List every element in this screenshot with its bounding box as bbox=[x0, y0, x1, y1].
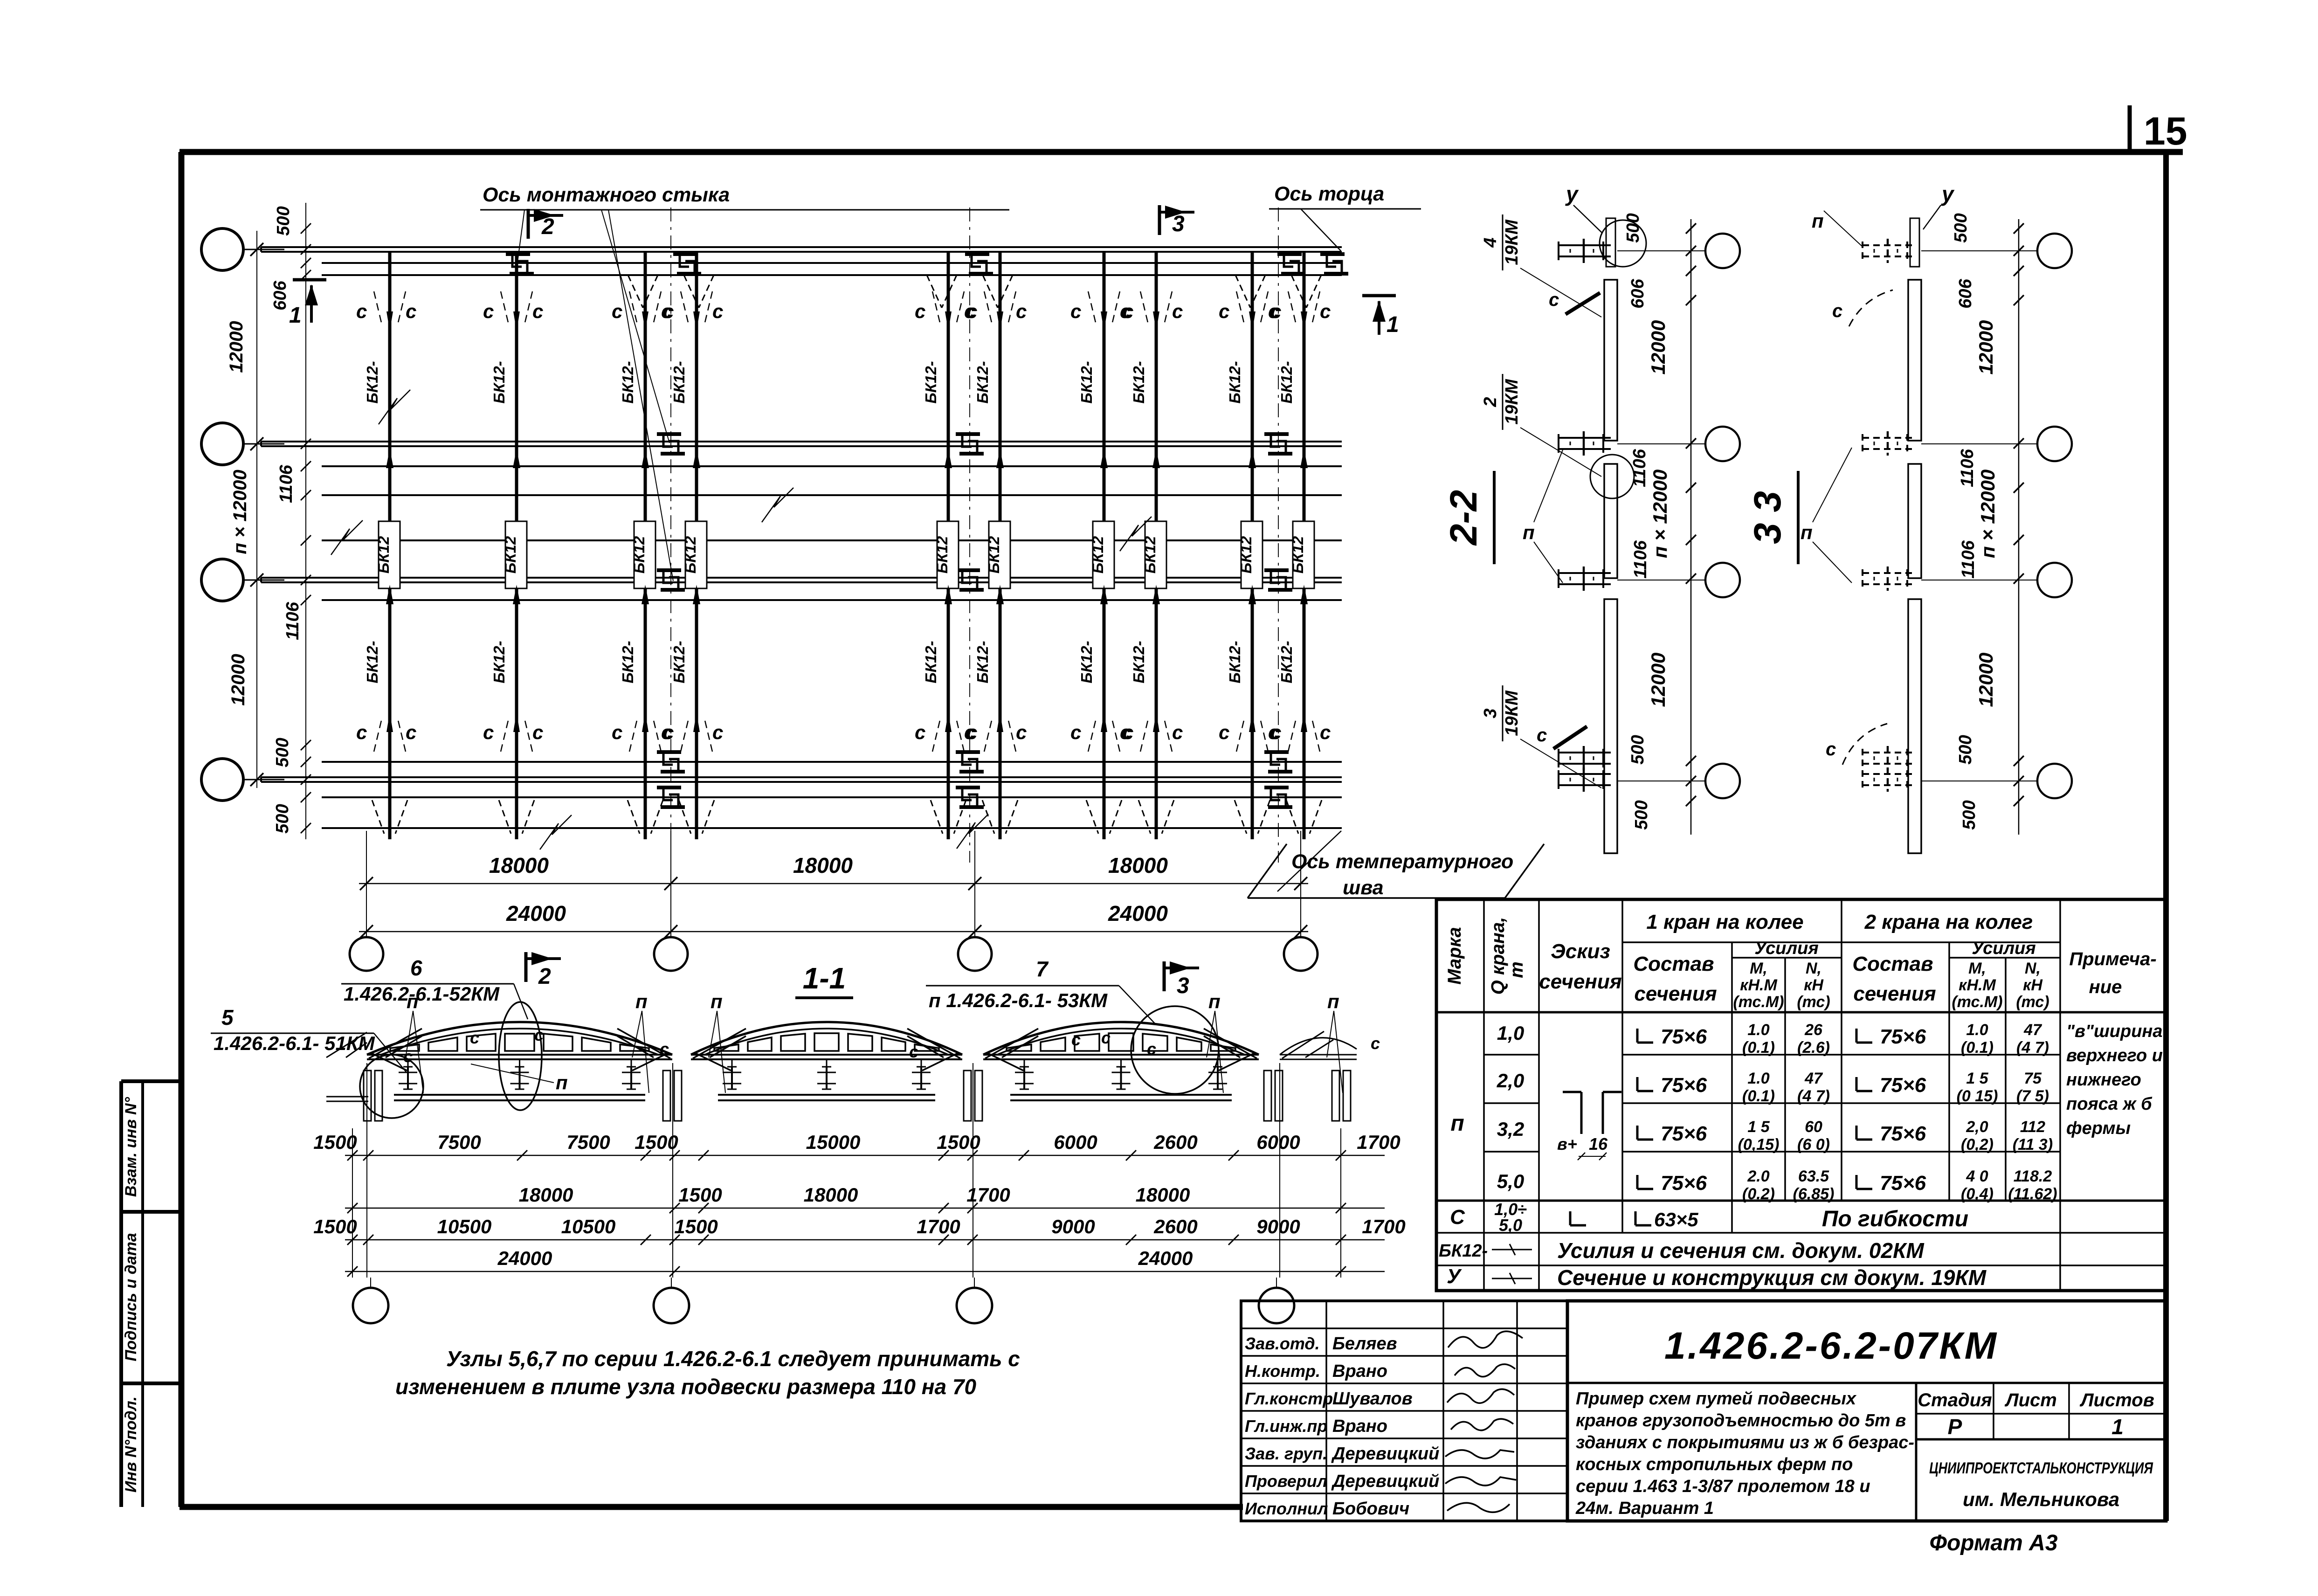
svg-text:Проверил: Проверил bbox=[1245, 1472, 1327, 1491]
svg-text:2: 2 bbox=[538, 964, 551, 989]
detail circles 2-2 bbox=[1600, 220, 1646, 267]
svg-text:БК12: БК12 bbox=[502, 536, 519, 573]
page number 15 bbox=[2128, 105, 2132, 155]
svg-text:1.0: 1.0 bbox=[1966, 1021, 1988, 1039]
plan grid circles bbox=[201, 228, 243, 270]
svg-text:75×6: 75×6 bbox=[1661, 1074, 1707, 1097]
svg-text:9000: 9000 bbox=[1051, 1216, 1095, 1237]
svg-text:500: 500 bbox=[274, 206, 293, 235]
svg-text:(6,85): (6,85) bbox=[1793, 1185, 1835, 1203]
svg-text:Усилия и сечения см. док: Усилия и сечения см. докум. 02КМ bbox=[1557, 1238, 1925, 1263]
column at 2877 bbox=[1332, 1071, 1339, 1121]
svg-text:12000: 12000 bbox=[1647, 653, 1669, 707]
svg-text:п: п bbox=[1812, 210, 1824, 232]
svg-text:Исполнил: Исполнил bbox=[1245, 1499, 1328, 1518]
c marks 3-3 (dashed) bbox=[1849, 290, 1893, 326]
section 2-2 hangers bbox=[1559, 244, 1611, 246]
svg-text:18000: 18000 bbox=[793, 853, 853, 877]
svg-text:п 1.426.2-6.1- 53КМ: п 1.426.2-6.1- 53КМ bbox=[929, 989, 1108, 1011]
title block main box bbox=[1567, 1301, 2166, 1521]
description box bbox=[1915, 1383, 1918, 1521]
svg-text:п × 12000: п × 12000 bbox=[1649, 470, 1671, 558]
svg-text:15: 15 bbox=[2144, 109, 2187, 153]
svg-text:БК12-: БК12- bbox=[1439, 1241, 1488, 1261]
svg-text:Стадия: Стадия bbox=[1918, 1390, 1992, 1410]
svg-text:10500: 10500 bbox=[437, 1216, 492, 1237]
svg-text:2,0: 2,0 bbox=[1966, 1118, 1988, 1136]
svg-text:1106: 1106 bbox=[1958, 449, 1977, 487]
svg-text:с: с bbox=[712, 300, 723, 322]
svg-text:с: с bbox=[1016, 721, 1027, 743]
svg-text:606: 606 bbox=[270, 280, 290, 310]
svg-text:БК12-: БК12- bbox=[490, 641, 508, 683]
svg-text:2 крана на колег: 2 крана на колег bbox=[1864, 911, 2033, 933]
svg-text:БК12: БК12 bbox=[1089, 536, 1106, 573]
detail circle node 6 bbox=[499, 1002, 542, 1110]
svg-text:Врано: Врано bbox=[1332, 1361, 1387, 1381]
rail joints row A bbox=[506, 252, 530, 256]
svg-text:с: с bbox=[534, 1025, 544, 1044]
svg-text:с: с bbox=[1071, 1030, 1081, 1049]
svg-text:19КМ: 19КМ bbox=[1502, 219, 1522, 265]
svg-text:(0 15): (0 15) bbox=[1957, 1087, 1998, 1105]
svg-text:(0.1): (0.1) bbox=[1742, 1087, 1775, 1105]
svg-text:1106: 1106 bbox=[1631, 540, 1650, 579]
column at 2087 bbox=[964, 1071, 971, 1121]
svg-text:ЦНИИПРОЕКТСТАЛЬКОНСТРУКЦИЯ: ЦНИИПРОЕКТСТАЛЬКОНСТРУКЦИЯ bbox=[1929, 1459, 2153, 1477]
svg-text:1: 1 bbox=[289, 303, 302, 328]
svg-text:3 3: 3 3 bbox=[1746, 491, 1789, 544]
svg-text:М,: М, bbox=[1750, 960, 1767, 977]
svg-text:(тс): (тс) bbox=[2016, 993, 2049, 1011]
svg-text:с: с bbox=[406, 721, 416, 743]
left dim line 500/606 column bbox=[305, 203, 306, 839]
svg-text:п × 12000: п × 12000 bbox=[230, 470, 250, 554]
svg-text:с: с bbox=[1270, 721, 1281, 743]
svg-text:2: 2 bbox=[1481, 397, 1500, 407]
svg-text:с: с bbox=[1371, 1034, 1380, 1053]
svg-text:с: с bbox=[1172, 300, 1183, 322]
svg-text:75×6: 75×6 bbox=[1880, 1025, 1926, 1048]
svg-text:(11.62): (11.62) bbox=[2008, 1185, 2057, 1203]
svg-text:У: У bbox=[1447, 1265, 1462, 1288]
svg-text:(тс.М): (тс.М) bbox=[1733, 993, 1784, 1011]
svg-text:7500: 7500 bbox=[437, 1131, 481, 1153]
svg-text:с: с bbox=[1270, 300, 1281, 322]
section flag 3 top bbox=[1158, 205, 1161, 235]
svg-text:с: с bbox=[966, 300, 977, 322]
section flag 2 bottom bbox=[524, 952, 528, 982]
svg-text:Ось монтажного стыка: Ось монтажного стыка bbox=[483, 184, 730, 206]
svg-text:с: с bbox=[1101, 1028, 1111, 1047]
svg-text:(0,4): (0,4) bbox=[1961, 1185, 1994, 1203]
svg-text:3: 3 bbox=[1172, 212, 1185, 236]
svg-text:63.5: 63.5 bbox=[1798, 1168, 1829, 1185]
svg-text:с: с bbox=[532, 300, 543, 322]
svg-text:БК12-: БК12- bbox=[670, 641, 688, 683]
svg-text:6000: 6000 bbox=[1256, 1131, 1300, 1153]
svg-text:(7 5): (7 5) bbox=[2016, 1087, 2049, 1105]
section 2-2 dim line bbox=[1690, 219, 1692, 835]
svg-text:75×6: 75×6 bbox=[1880, 1172, 1926, 1195]
svg-text:2.0: 2.0 bbox=[1747, 1168, 1769, 1185]
svg-text:1.0: 1.0 bbox=[1747, 1070, 1769, 1087]
svg-text:БК12: БК12 bbox=[1289, 536, 1306, 573]
svg-text:Р: Р bbox=[1948, 1415, 1962, 1439]
svg-text:с: с bbox=[1172, 721, 1183, 743]
dim line 18000 row bbox=[345, 1208, 1385, 1209]
column at 2731 bbox=[1264, 1071, 1271, 1121]
svg-text:ние: ние bbox=[2089, 977, 2122, 997]
section 3 3 grid circles bbox=[2037, 234, 2072, 268]
svg-text:12000: 12000 bbox=[1975, 320, 1997, 375]
svg-text:с: с bbox=[1070, 300, 1081, 322]
svg-text:1.426.2-6.1-52КМ: 1.426.2-6.1-52КМ bbox=[344, 983, 500, 1005]
channel sketch bbox=[1563, 1091, 1581, 1093]
svg-text:с: с bbox=[1537, 725, 1547, 746]
svg-text:с: с bbox=[1549, 290, 1559, 310]
svg-text:500: 500 bbox=[273, 738, 292, 767]
svg-text:606: 606 bbox=[1628, 278, 1648, 308]
svg-text:Зав.отд.: Зав.отд. bbox=[1245, 1334, 1320, 1353]
svg-text:24000: 24000 bbox=[1108, 901, 1168, 926]
svg-text:с: с bbox=[1219, 300, 1229, 322]
plan bottom extension lines bbox=[366, 831, 367, 938]
section flag 1 right bbox=[1362, 294, 1396, 297]
truss 787-1442 bbox=[367, 1054, 672, 1056]
svg-text:им. Мельникова: им. Мельникова bbox=[1963, 1488, 2119, 1510]
rail joints row C bbox=[657, 568, 681, 572]
svg-text:16: 16 bbox=[1589, 1134, 1608, 1154]
table verticals bbox=[1483, 899, 1485, 1291]
svg-text:3: 3 bbox=[1177, 974, 1189, 998]
svg-text:БК12-: БК12- bbox=[364, 641, 381, 683]
svg-text:с: с bbox=[356, 721, 367, 743]
svg-text:БК12: БК12 bbox=[1237, 536, 1255, 573]
svg-text:с: с bbox=[712, 721, 723, 743]
svg-text:24м. Вариант 1: 24м. Вариант 1 bbox=[1575, 1499, 1714, 1518]
detail circle node 7 bbox=[1131, 1006, 1219, 1094]
svg-text:(тс.М): (тс.М) bbox=[1952, 993, 2002, 1011]
svg-text:500: 500 bbox=[1959, 800, 1979, 829]
svg-text:БК12-: БК12- bbox=[974, 361, 991, 403]
section 1-1 dim verticals bbox=[366, 1063, 367, 1278]
svg-text:500: 500 bbox=[273, 804, 292, 833]
svg-text:12000: 12000 bbox=[226, 321, 247, 373]
section 3 3 dim line bbox=[2018, 219, 2020, 835]
section flag 1 left bbox=[293, 278, 326, 282]
left truss fragment bbox=[326, 1032, 367, 1057]
svg-text:(0.1): (0.1) bbox=[1961, 1039, 1994, 1057]
svg-text:7: 7 bbox=[1036, 957, 1049, 981]
svg-text:с: с bbox=[532, 721, 543, 743]
section 1-1 bottom circles bbox=[370, 1278, 371, 1289]
svg-text:1-1: 1-1 bbox=[803, 961, 846, 995]
svg-text:2: 2 bbox=[541, 214, 554, 239]
svg-text:Усилия: Усилия bbox=[1754, 939, 1818, 958]
svg-text:Зав. груп.: Зав. груп. bbox=[1245, 1444, 1327, 1463]
left margin stamp boxes bbox=[119, 1081, 123, 1507]
svg-text:изменением в плите узла п: изменением в плите узла подвески размера… bbox=[395, 1375, 977, 1399]
svg-text:БК12-: БК12- bbox=[1226, 361, 1243, 403]
svg-text:"в"ширина: "в"ширина bbox=[2066, 1022, 2163, 1041]
svg-text:19КМ: 19КМ bbox=[1502, 379, 1522, 425]
svg-text:1700: 1700 bbox=[1357, 1131, 1400, 1153]
svg-text:Узлы 5,6,7 по серии 1.426.: Узлы 5,6,7 по серии 1.426.2-6.1 следует … bbox=[446, 1347, 1020, 1371]
column at 800 bbox=[364, 1071, 371, 1121]
svg-text:БК12-: БК12- bbox=[619, 361, 636, 403]
svg-text:Листов: Листов bbox=[2079, 1390, 2154, 1410]
svg-text:(2.6): (2.6) bbox=[1797, 1039, 1830, 1057]
svg-text:26: 26 bbox=[1804, 1021, 1823, 1039]
svg-text:п: п bbox=[407, 990, 419, 1012]
section flag 3 bottom bbox=[1163, 961, 1166, 991]
svg-text:БК12: БК12 bbox=[985, 536, 1002, 573]
svg-text:Формат А3: Формат А3 bbox=[1929, 1531, 2057, 1555]
svg-text:сечения: сечения bbox=[1539, 970, 1621, 993]
signature table bbox=[1241, 1301, 1567, 1521]
dim line 24000 bbox=[359, 931, 1308, 933]
svg-text:24000: 24000 bbox=[1138, 1247, 1193, 1269]
dim line 18000 bbox=[359, 883, 1308, 884]
svg-text:БК12-: БК12- bbox=[1130, 361, 1147, 403]
svg-text:с: с bbox=[483, 721, 494, 743]
svg-text:с: с bbox=[660, 1039, 669, 1058]
rail joints row B bbox=[657, 432, 681, 436]
svg-text:3: 3 bbox=[1481, 708, 1500, 718]
svg-text:БК12: БК12 bbox=[375, 536, 392, 573]
svg-text:с: с bbox=[915, 721, 925, 743]
temperature seam axis leader bbox=[1277, 831, 1341, 891]
svg-text:М,: М, bbox=[1968, 960, 1986, 977]
svg-text:БК12-: БК12- bbox=[619, 641, 636, 683]
svg-text:(4 7): (4 7) bbox=[1797, 1087, 1830, 1105]
svg-text:фермы: фермы bbox=[2066, 1119, 2131, 1138]
crane table outer border bbox=[1436, 899, 2166, 1291]
detail circle node 5 bbox=[360, 1055, 423, 1118]
svg-text:112: 112 bbox=[2020, 1118, 2045, 1136]
svg-text:1 5: 1 5 bbox=[1966, 1070, 1988, 1087]
svg-text:с: с bbox=[1826, 739, 1836, 760]
svg-text:1500: 1500 bbox=[937, 1131, 980, 1153]
svg-text:Гл.инж.пр: Гл.инж.пр bbox=[1245, 1416, 1327, 1436]
svg-text:1 5: 1 5 bbox=[1747, 1118, 1770, 1136]
svg-text:БК12-: БК12- bbox=[670, 361, 688, 403]
small arrows at rows B and C bbox=[386, 449, 393, 468]
svg-text:Усилия: Усилия bbox=[1972, 939, 2035, 958]
plan rail lines bbox=[322, 262, 1342, 264]
svg-text:Н.контр.: Н.контр. bbox=[1245, 1361, 1320, 1381]
section flag 2 top bbox=[527, 209, 530, 239]
svg-text:500: 500 bbox=[1951, 213, 1971, 242]
svg-text:75×6: 75×6 bbox=[1661, 1172, 1707, 1195]
svg-text:п: п bbox=[1523, 521, 1535, 543]
dashed V hangers below row A joints bbox=[628, 275, 643, 308]
svg-text:верхнего и: верхнего и bbox=[2066, 1046, 2163, 1065]
svg-text:75×6: 75×6 bbox=[1880, 1074, 1926, 1097]
svg-text:БК12-: БК12- bbox=[922, 361, 939, 403]
svg-text:с: с bbox=[915, 300, 925, 322]
svg-text:19КМ: 19КМ bbox=[1502, 690, 1522, 736]
svg-text:Деревицкий: Деревицкий bbox=[1331, 1472, 1439, 1491]
section 3 3 beam bbox=[1908, 280, 1921, 441]
svg-text:1: 1 bbox=[1387, 312, 1399, 337]
svg-text:с: с bbox=[406, 300, 416, 322]
svg-text:п: п bbox=[1208, 990, 1221, 1012]
svg-text:(0,2): (0,2) bbox=[1961, 1136, 1994, 1154]
svg-text:1106: 1106 bbox=[283, 601, 303, 640]
svg-text:N,: N, bbox=[1806, 960, 1821, 977]
section 2-2 beam bbox=[1604, 280, 1617, 441]
dim line 10500 row bbox=[345, 1239, 1385, 1241]
svg-text:БК12: БК12 bbox=[630, 536, 648, 573]
svg-text:с: с bbox=[1147, 1039, 1156, 1058]
table horizontals bbox=[1622, 941, 2060, 943]
svg-text:БК12-: БК12- bbox=[490, 361, 508, 403]
svg-text:с: с bbox=[663, 721, 674, 743]
svg-text:(4 7): (4 7) bbox=[2016, 1039, 2049, 1057]
section 3 3 hangers bbox=[1863, 244, 1915, 246]
svg-text:шва: шва bbox=[1343, 877, 1384, 899]
svg-text:с: с bbox=[1016, 300, 1027, 322]
svg-text:п: п bbox=[1450, 1111, 1464, 1136]
svg-text:2,0: 2,0 bbox=[1497, 1070, 1524, 1092]
svg-text:5,0: 5,0 bbox=[1499, 1216, 1522, 1235]
svg-text:зданиях с покрытиями из ж б: зданиях с покрытиями из ж б безрас- bbox=[1576, 1433, 1914, 1452]
svg-text:кН.М: кН.М bbox=[1740, 976, 1777, 994]
svg-text:БК12: БК12 bbox=[682, 536, 699, 573]
svg-text:1700: 1700 bbox=[1362, 1216, 1405, 1237]
svg-text:1700: 1700 bbox=[917, 1216, 960, 1237]
break marks bbox=[379, 390, 410, 424]
svg-text:Инв N°подл.: Инв N°подл. bbox=[122, 1396, 140, 1492]
svg-text:(тс): (тс) bbox=[1797, 993, 1830, 1011]
svg-text:БК12-: БК12- bbox=[1130, 641, 1147, 683]
svg-text:с: с bbox=[1320, 721, 1331, 743]
svg-text:БК12-: БК12- bbox=[1226, 641, 1243, 683]
svg-text:у: у bbox=[1565, 182, 1579, 206]
c marks 2-2 bbox=[1566, 293, 1600, 314]
svg-text:Марка: Марка bbox=[1444, 927, 1465, 985]
svg-text:1.0: 1.0 bbox=[1747, 1021, 1769, 1039]
svg-text:БК12: БК12 bbox=[933, 536, 951, 573]
svg-text:кранов грузоподъемностью до: кранов грузоподъемностью до 5т в bbox=[1576, 1411, 1906, 1430]
svg-text:кН.М: кН.М bbox=[1959, 976, 1996, 994]
svg-text:1500: 1500 bbox=[635, 1131, 678, 1153]
svg-text:118.2: 118.2 bbox=[2014, 1168, 2052, 1185]
svg-text:Q крана,: Q крана, bbox=[1488, 917, 1508, 995]
svg-text:1106: 1106 bbox=[1959, 540, 1978, 579]
svg-text:с: с bbox=[483, 300, 494, 322]
svg-text:3,2: 3,2 bbox=[1497, 1118, 1524, 1140]
svg-text:с: с bbox=[1123, 721, 1133, 743]
svg-text:12000: 12000 bbox=[228, 654, 248, 705]
svg-text:кН: кН bbox=[1804, 976, 1824, 994]
svg-text:косных стропильных ферм по: косных стропильных ферм по bbox=[1576, 1455, 1853, 1474]
svg-text:БК12: БК12 bbox=[1141, 536, 1159, 573]
svg-text:Гл.констр.: Гл.констр. bbox=[1245, 1389, 1338, 1408]
svg-text:Примеча-: Примеча- bbox=[2069, 949, 2156, 969]
truss 1482-2064 bbox=[691, 1054, 962, 1056]
plan row axis lines (double) bbox=[243, 249, 284, 250]
svg-text:2600: 2600 bbox=[1153, 1216, 1197, 1237]
svg-text:(6 0): (6 0) bbox=[1797, 1136, 1830, 1154]
svg-text:Врано: Врано bbox=[1332, 1416, 1387, 1436]
svg-text:БК12-: БК12- bbox=[1278, 641, 1295, 683]
svg-text:Лист: Лист bbox=[2004, 1390, 2057, 1410]
svg-text:5,0: 5,0 bbox=[1497, 1170, 1524, 1192]
svg-text:По гибкости: По гибкости bbox=[1822, 1207, 1968, 1231]
svg-text:1 кран на колее: 1 кран на колее bbox=[1646, 911, 1803, 933]
svg-text:с: с bbox=[1320, 300, 1331, 322]
svg-text:606: 606 bbox=[1956, 278, 1975, 308]
svg-text:с: с bbox=[356, 300, 367, 322]
svg-text:Шувалов: Шувалов bbox=[1332, 1389, 1413, 1409]
right truss fragment bbox=[1280, 1038, 1357, 1055]
svg-text:п × 12000: п × 12000 bbox=[1977, 470, 1999, 558]
svg-text:БК12-: БК12- bbox=[1078, 641, 1095, 683]
svg-text:1500: 1500 bbox=[313, 1131, 357, 1153]
svg-text:18000: 18000 bbox=[804, 1184, 858, 1206]
bottom grid circles bbox=[366, 932, 367, 937]
svg-text:(0.2): (0.2) bbox=[1742, 1185, 1775, 1203]
svg-text:15000: 15000 bbox=[806, 1131, 861, 1153]
svg-text:т: т bbox=[1506, 961, 1527, 978]
svg-text:1: 1 bbox=[2111, 1415, 2124, 1439]
svg-text:с: с bbox=[612, 721, 622, 743]
svg-text:Взам. инв N°: Взам. инв N° bbox=[122, 1097, 140, 1197]
svg-text:Беляев: Беляев bbox=[1332, 1334, 1397, 1354]
svg-text:с: с bbox=[966, 721, 977, 743]
svg-text:1.426.2-6.1- 51КМ: 1.426.2-6.1- 51КМ bbox=[214, 1032, 375, 1054]
svg-text:60: 60 bbox=[1805, 1118, 1822, 1136]
svg-text:сечения: сечения bbox=[1853, 982, 1936, 1005]
svg-text:Пример схем путей подвесных: Пример схем путей подвесных bbox=[1576, 1389, 1857, 1409]
svg-text:18000: 18000 bbox=[1136, 1184, 1190, 1206]
svg-text:Состав: Состав bbox=[1633, 953, 1714, 975]
svg-text:сечения: сечения bbox=[1634, 982, 1717, 1005]
svg-text:с: с bbox=[1070, 721, 1081, 743]
sheet frame bbox=[179, 149, 2183, 155]
svg-text:4: 4 bbox=[1481, 237, 1500, 248]
svg-text:Ось торца: Ось торца bbox=[1274, 183, 1384, 205]
montage joint axes (dash-dot) bbox=[670, 207, 671, 863]
svg-text:2600: 2600 bbox=[1153, 1131, 1197, 1153]
svg-text:с: с bbox=[1219, 721, 1229, 743]
svg-text:с: с bbox=[1123, 300, 1133, 322]
svg-text:нижнего: нижнего bbox=[2066, 1070, 2141, 1090]
svg-text:у: у bbox=[1941, 182, 1955, 206]
svg-text:Эскиз: Эскиз bbox=[1551, 940, 1610, 963]
svg-text:9000: 9000 bbox=[1256, 1216, 1300, 1237]
column at 1442 bbox=[663, 1071, 670, 1121]
section 2-2 grid circles bbox=[1705, 234, 1740, 268]
svg-text:47: 47 bbox=[2023, 1021, 2042, 1039]
svg-text:с: с bbox=[403, 1047, 413, 1066]
truss 2109-2700 bbox=[983, 1054, 1259, 1056]
svg-text:п: п bbox=[1327, 990, 1339, 1012]
svg-text:75: 75 bbox=[2024, 1070, 2042, 1087]
svg-text:с: с bbox=[470, 1028, 479, 1047]
svg-text:Бобович: Бобович bbox=[1332, 1499, 1409, 1519]
svg-text:75×6: 75×6 bbox=[1880, 1122, 1926, 1145]
svg-text:7500: 7500 bbox=[566, 1131, 610, 1153]
svg-text:Деревицкий: Деревицкий bbox=[1331, 1444, 1439, 1464]
svg-text:75×6: 75×6 bbox=[1661, 1025, 1707, 1048]
svg-text:47: 47 bbox=[1804, 1070, 1823, 1087]
stadiya list listov bbox=[1916, 1413, 2166, 1415]
svg-text:пояса ж б: пояса ж б bbox=[2066, 1094, 2152, 1114]
